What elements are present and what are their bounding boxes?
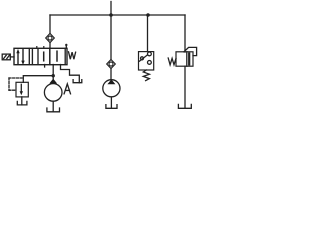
- node J2 junction dot: [146, 13, 150, 17]
- V1 position 1 up-arrow: [16, 49, 19, 64]
- pressure switch PS1 body: [139, 52, 154, 70]
- wire pump P2 riser (off-page at top): [110, 2, 112, 60]
- spring RV1: [168, 58, 176, 65]
- wire RV1 to tank T4: [184, 66, 186, 108]
- tank T3: [106, 105, 117, 109]
- pilot line UV1 (dashed): [9, 78, 23, 90]
- wire bus corner down to relief valve RV1: [184, 15, 186, 52]
- tank T2: [17, 101, 27, 105]
- wire CV1 to valve V1 top port: [49, 43, 51, 49]
- wire top pressure bus: [50, 14, 185, 16]
- wire bus corner down to check valve CV1: [49, 15, 51, 34]
- valve V1 body: [14, 48, 67, 64]
- PS1 contact circles and lever: [139, 52, 151, 64]
- wire V1 P-port to pump P1: [52, 65, 54, 79]
- wire UV1 to tank T2: [21, 97, 23, 105]
- wire J3 to unloading valve UV1: [23, 76, 53, 83]
- node J1 junction dot: [109, 13, 113, 17]
- V1 top stub port: [65, 45, 67, 49]
- unloading valve UV1 body: [16, 82, 28, 97]
- spring PS1 zigzag: [143, 70, 149, 81]
- solenoid actuator A1: [2, 54, 14, 60]
- wire P2 to tank T3: [110, 97, 112, 108]
- pump P2: [103, 79, 120, 97]
- tank T5: [73, 80, 82, 83]
- check valve CV2: [107, 60, 116, 69]
- tank T4: [178, 104, 191, 108]
- wire V1 T-port stair to tank T5: [61, 65, 80, 83]
- spring V1 (right end): [69, 52, 76, 59]
- wire J2 down to pressure switch PS1: [147, 15, 149, 52]
- RV1 pilot loop: [184, 47, 197, 55]
- wire P1 to tank T1: [52, 101, 54, 112]
- label A: [64, 84, 70, 94]
- check valve CV1: [46, 33, 55, 42]
- pump P1: [44, 79, 62, 102]
- V1 top pilot stubs: [36, 47, 38, 49]
- V1 internal vertical lines: [29, 49, 65, 68]
- V1 position 1 down-arrow: [21, 49, 24, 65]
- relief valve RV1 body: [176, 52, 193, 66]
- wire CV2 to pump P2: [110, 69, 112, 80]
- node J3 junction dot: [52, 74, 55, 77]
- tank T1: [47, 108, 60, 112]
